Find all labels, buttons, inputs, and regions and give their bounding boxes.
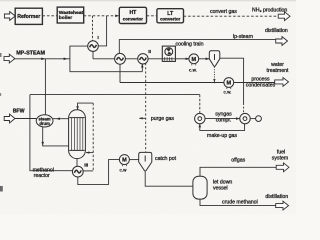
wire: compressor 2 to drive (250, 118, 255, 120)
wire: lower steam line to exchanger II-B (70, 71, 142, 73)
scan speck left edge 3 (0, 186, 3, 192)
exchanger II-B circle (138, 54, 148, 64)
wire: reactor feed riser dashed (92, 103, 94, 171)
arrowhead up into exchanger II-B (141, 64, 144, 68)
inlet arrow MP-steam (4, 54, 15, 63)
scan speck left edge 2 (0, 93, 1, 96)
cooler M1 circle (189, 54, 199, 66)
wire: dashed convert gas line LT convertor to NH3 arrow (184, 15, 278, 17)
wire: recycle left downcomer (30, 95, 73, 171)
wire: purge gas stub (139, 117, 145, 119)
steam drum (36, 115, 53, 127)
exchanger I circle (88, 41, 99, 52)
arrowhead purge gas pointing left (139, 117, 143, 119)
arrowhead up into compressor 1 (199, 124, 202, 128)
arrowhead down on separator drain (213, 79, 215, 82)
wire: effluent riser to cooler M3 (109, 160, 120, 185)
inlet arrow reformer (4, 12, 15, 21)
wire: quench stub into reactor (86, 152, 93, 154)
wire: make-up gas line (200, 124, 245, 131)
arrowhead on MP-steam line (64, 58, 68, 61)
wire: dashed tail into compressor 2 (243, 103, 245, 113)
HT convertor box (119, 7, 146, 23)
wire: steam drum downcomer (43, 127, 69, 146)
wire: offgas line from let down vessel (200, 167, 277, 176)
arrowhead on MP-steam line before drum tee (41, 58, 45, 61)
let down vessel (193, 176, 207, 199)
wire: main process line through exchangers II (93, 58, 162, 60)
wire: dashed drop from gas line into exchanger I (92, 16, 94, 41)
wire: MP-steam inlet line (15, 58, 70, 60)
wire: cooler M3 to catch pot (129, 159, 138, 161)
compressor drive circle (256, 116, 262, 122)
reformer box (15, 8, 42, 24)
arrowhead down into reactor top (76, 106, 79, 110)
cooler M3 circle (119, 155, 129, 167)
cooler M2 circle (224, 78, 234, 90)
wire: dashed gas line reformer to wasteheat boiler (42, 15, 57, 17)
wire: dashed condensate line (120, 82, 224, 84)
air cooler box (162, 46, 175, 61)
wire: lp-steam header line (119, 40, 276, 54)
wasteheat boiler box (57, 7, 83, 23)
wire: riser reactor to steam drum (53, 118, 69, 120)
wire: exchanger II-A bottom drop to condensate line (119, 64, 121, 82)
wire: exchanger II-B bottom stub (141, 64, 143, 71)
wire: compressor interstage line (205, 118, 240, 120)
arrowhead down on downcomer (41, 142, 44, 146)
wire: exchanger III bottom drop (78, 177, 109, 185)
wire: catch pot bottom to let down vessel (145, 172, 193, 187)
wire: separator drain dotted drop (213, 67, 215, 83)
wire: process line air cooler to cooler M1 (175, 58, 189, 60)
wire: separator overhead to downline (220, 58, 244, 103)
wire: reactor top feed line (78, 103, 94, 110)
inlet arrow BFW (4, 114, 15, 123)
wire: recycle header line (30, 94, 200, 96)
exchanger III circle (72, 166, 83, 177)
wire: exchanger I right side return up to gas line (98, 16, 106, 46)
separator vessel (209, 51, 220, 67)
wire: exchanger I bottom stub (92, 51, 94, 58)
wire: crude methanol line (200, 199, 276, 206)
compressor 2 circle (240, 113, 250, 123)
arrowhead quench into reactor (86, 151, 90, 153)
catch pot vessel (139, 152, 152, 171)
outlet arrow water treatment (275, 78, 289, 87)
arrowhead into HT convertor (115, 15, 119, 18)
wire: BFW inlet line (15, 118, 37, 120)
wire: condensate line cooler to water treatment arrow (234, 82, 275, 84)
wire: compressor 1 suction riser (199, 95, 201, 114)
outlet arrow distillation top (276, 37, 288, 46)
methanol reactor vessel (69, 110, 86, 159)
outlet arrow fuel system (276, 163, 289, 172)
wire: steam drum feed drop (44, 59, 46, 115)
wire: riser left leg of exchanger I (70, 46, 88, 72)
wire: cooler M1 to separator (199, 58, 210, 60)
exchanger II-A circle (115, 53, 126, 64)
scan streak top edge (0, 0, 296, 2)
arrowhead into separator (206, 58, 210, 61)
compressor 1 circle (195, 113, 205, 123)
LT convertor box (157, 9, 184, 23)
wire: exchanger III outlet stub to riser (83, 170, 93, 172)
scan speck left edge 1 (0, 53, 2, 57)
arrowhead into cooler M1 (186, 58, 190, 61)
outlet arrow distillation bottom (276, 201, 289, 210)
junction dot condensate line (214, 82, 216, 84)
outlet arrow NH3 production (278, 12, 290, 21)
arrowhead into steam drum (56, 117, 60, 120)
wire: catch pot gas riser dashed (145, 59, 147, 153)
wire: dashed gas line wasteheat boiler to HT convertor (84, 15, 117, 17)
wire: reactor bottom to exchanger III (76, 159, 78, 167)
wire: dashed gas line HT to LT convertor (147, 15, 157, 17)
arrowhead into compressor 2 (236, 117, 240, 120)
